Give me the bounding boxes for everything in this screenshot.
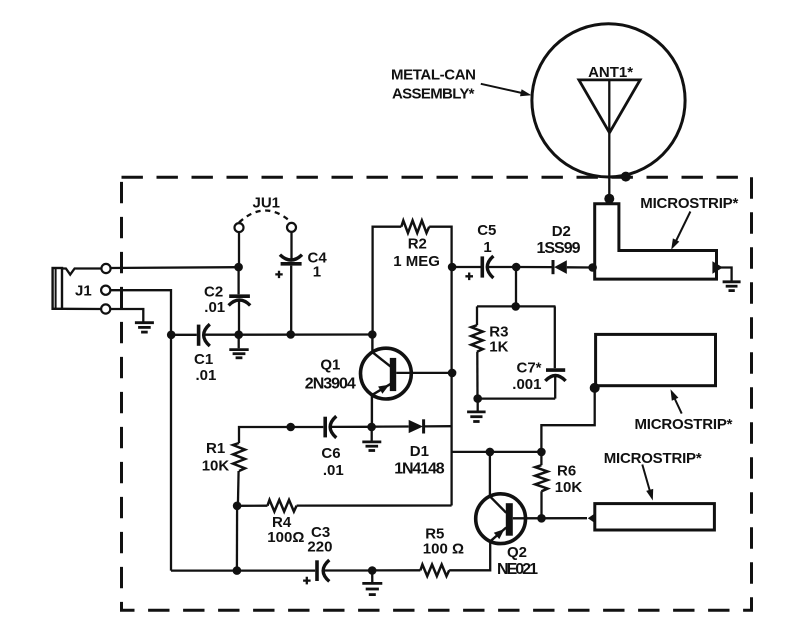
C3 plus sign [303, 577, 311, 585]
node dot R1/R4 [233, 502, 242, 511]
Q1 base lead [396, 372, 448, 374]
wire bottom bus left section [171, 569, 315, 571]
wire R3/C7 loop bottom [478, 397, 556, 399]
node dot Q2 collector branch [486, 448, 495, 457]
wire node to D2 [516, 266, 551, 268]
wire R5 to Q2 emitter [449, 542, 490, 571]
resistor R3 (1K) [476, 306, 478, 325]
resistor R2 (1 MEG) [401, 221, 429, 233]
node dot C3/ground [368, 566, 377, 575]
svg-text:METAL-CAN: METAL-CAN [391, 66, 476, 83]
wire Q1 base bus to Q2 collector and R6 [452, 451, 542, 453]
wire antenna to microstrip [608, 80, 610, 199]
Q2 base lead [513, 517, 587, 519]
Q1 collector lead [372, 335, 390, 367]
ground at Q1 emitter [362, 442, 381, 451]
JU1 right pin [287, 223, 296, 232]
svg-text:100Ω: 100Ω [267, 529, 304, 546]
svg-text:10K: 10K [202, 458, 230, 475]
microstrip 1 (L-shaped, antenna feed) [595, 204, 717, 279]
svg-text:.01: .01 [196, 367, 217, 384]
wire R1 to R4 node [237, 471, 240, 506]
svg-text:1N4148: 1N4148 [394, 461, 445, 478]
svg-text:1SS99: 1SS99 [537, 240, 581, 257]
wire C3 to ground node [325, 569, 373, 571]
J1 sleeve terminal [101, 304, 110, 313]
capacitor C1 (.01) [175, 334, 197, 336]
leader arrow to can [481, 84, 522, 93]
wire J1 tip to node A [111, 266, 239, 269]
svg-text:1 MEG: 1 MEG [393, 253, 440, 270]
node dot Q1 base / R2 leg [448, 369, 457, 378]
wire to D1 [372, 425, 409, 428]
arrow connector microstrip 1 to ground [712, 261, 723, 273]
wire JU1 right pin down to C4 [290, 232, 292, 259]
wire D2 to microstrip 1 [567, 266, 593, 269]
node dot on shield border [621, 172, 631, 182]
svg-text:D1: D1 [410, 443, 429, 460]
metal can assembly circle [532, 24, 685, 177]
resistor R6 (10K) [540, 452, 542, 465]
leader arrow to microstrip 3 [642, 465, 650, 493]
diode D2 (1SS99) [552, 260, 555, 274]
svg-text:Q2: Q2 [507, 544, 527, 561]
wire C6 to Q1 emitter node [332, 426, 372, 428]
node dot R6 top branch [537, 448, 546, 457]
ground at C3 [362, 583, 382, 594]
capacitor C5 (1uF) [456, 266, 481, 268]
arrow connector Q2 base to microstrip 3 [588, 513, 596, 524]
node dot R3 bottom [473, 394, 482, 403]
svg-text:Q1: Q1 [320, 357, 340, 374]
svg-text:R1: R1 [206, 440, 225, 457]
connector J1 phone jack body [53, 268, 62, 309]
svg-text:MICROSTRIP*: MICROSTRIP* [604, 450, 702, 467]
transistor Q2 (NE021) circle [476, 494, 526, 544]
node dot bottom bus [233, 566, 242, 575]
svg-text:D2: D2 [552, 223, 571, 240]
node dot R3/C7 top [511, 302, 520, 311]
svg-text:C1: C1 [194, 351, 213, 368]
wire C5 to D2 node [489, 266, 517, 268]
Q1 base bar [390, 358, 396, 391]
node dot R2/C5 [448, 263, 457, 272]
svg-text:R2: R2 [408, 235, 427, 252]
node dot C4 bottom [286, 330, 295, 339]
svg-text:220: 220 [307, 539, 332, 556]
antenna ANT1 triangle [579, 80, 640, 133]
node dot C5/D2/R3 [512, 263, 521, 272]
wire J1 ring terminal right and down [110, 290, 171, 570]
node dot at microstrip top [604, 194, 614, 204]
wire Q2 collector [489, 452, 491, 497]
wire R6 to Q2 base node [540, 491, 542, 518]
svg-text:JU1: JU1 [253, 195, 281, 212]
ground at microstrip 1 [723, 282, 741, 291]
svg-text:1: 1 [483, 239, 491, 256]
svg-text:R6: R6 [557, 463, 576, 480]
wire node to Q1 collector bus [242, 333, 372, 336]
svg-text:.01: .01 [323, 462, 344, 479]
svg-text:C7*: C7* [517, 359, 542, 376]
resistor R5 (100 ohm) [420, 565, 449, 577]
leader arrow to microstrip 1 [676, 212, 691, 243]
jumper JU1 dashed arc [239, 211, 292, 223]
wire to ground [477, 399, 479, 411]
wire down to bottom bus [236, 506, 239, 571]
svg-text:C6: C6 [321, 445, 340, 462]
node dot C1/C2/ground [234, 330, 243, 339]
node dot Q1 emitter / D1 anode / ground [367, 423, 376, 432]
connection dot D2 wire to microstrip 1 [588, 263, 597, 272]
wire R3/C7 loop top [477, 305, 556, 307]
svg-text:NE021: NE021 [497, 561, 538, 578]
svg-text:C2: C2 [204, 284, 223, 301]
node dot C6 left branch [286, 423, 295, 432]
node A dot (JU1/C2 junction) [234, 263, 243, 272]
svg-text:.001: .001 [512, 376, 541, 393]
wire microstrip 2 to R6 node [541, 388, 594, 452]
svg-text:MICROSTRIP*: MICROSTRIP* [635, 416, 733, 433]
wire R2 right leg down to R4 corner [429, 227, 451, 506]
J1 tip contact wire with notch [62, 269, 101, 275]
J1 tip terminal [101, 264, 110, 273]
capacitor C3 (220uF) [315, 560, 319, 581]
ground at R3/C7 [467, 412, 486, 422]
wire J1 sleeve to ground [110, 309, 143, 322]
ground at J1 [135, 323, 154, 332]
Q2 collector lead [490, 496, 506, 513]
wire R1 top corner to C6 [239, 427, 323, 443]
leader arrow to microstrip 2 [674, 397, 682, 414]
Q1 emitter lead with arrow [372, 384, 391, 423]
wire C2 to ground node [238, 302, 240, 335]
capacitor C4 (1uF electrolytic) [280, 255, 302, 260]
svg-text:C5: C5 [477, 222, 496, 239]
wire to R5 [372, 569, 420, 571]
node dot at C1 branch [167, 331, 176, 340]
capacitor C7* (.001) [554, 306, 556, 368]
svg-text:10K: 10K [555, 479, 583, 496]
microstrip 2 (middle rectangle) [596, 334, 716, 385]
resistor R4 (100 ohm) [237, 505, 267, 507]
JU1 left pin [235, 223, 244, 232]
svg-text:.01: .01 [204, 299, 225, 316]
svg-text:2N3904: 2N3904 [305, 376, 356, 393]
wire C5/D2 node down to R3/C7 [515, 267, 517, 306]
wire to ground [721, 268, 732, 281]
microstrip 3 (bottom rectangle) [595, 504, 715, 530]
svg-text:ASSEMBLY*: ASSEMBLY* [392, 85, 475, 102]
wire R4 to R2 leg corner [297, 504, 452, 506]
capacitor C2 (.01) [237, 267, 239, 294]
svg-text:1: 1 [313, 264, 321, 281]
wire R2 left leg [373, 227, 402, 331]
Q2 emitter lead with arrow [490, 528, 506, 542]
diode D1 (1N4148) [409, 420, 423, 433]
svg-text:1K: 1K [489, 339, 508, 356]
wire D1 to vertical bus [425, 425, 452, 427]
wire JU1 left pin down to node A [238, 232, 240, 264]
wire C1 to node [205, 334, 239, 336]
wire C4 to bus node [290, 266, 292, 331]
transistor Q1 (2N3904) circle [361, 348, 412, 399]
svg-text:100 Ω: 100 Ω [423, 541, 464, 558]
ground at C1/C2 node [229, 350, 248, 358]
resistor R1 (10K) [233, 443, 245, 471]
C4 plus sign [275, 271, 282, 278]
node dot Q1 collector / R2 left [368, 330, 377, 339]
node dot Q2 base / R6 [537, 514, 546, 523]
J1 sleeve contact wire [62, 308, 101, 311]
svg-text:MICROSTRIP*: MICROSTRIP* [640, 195, 738, 212]
svg-text:J1: J1 [75, 283, 92, 300]
corner node dot [590, 383, 600, 393]
svg-text:ANT1*: ANT1* [588, 64, 633, 81]
J1 ring terminal [101, 286, 110, 295]
dashed shield enclosure border [122, 177, 752, 610]
capacitor C6 (.01) [323, 417, 327, 438]
Q2 base bar [506, 503, 513, 536]
C5 plus sign [465, 273, 473, 281]
